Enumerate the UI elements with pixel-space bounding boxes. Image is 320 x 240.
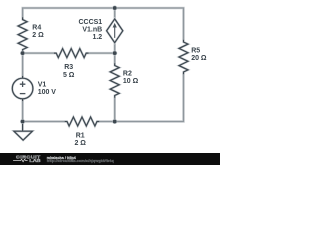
svg-text:R2: R2 — [123, 71, 132, 78]
svg-text:V1.nB: V1.nB — [82, 27, 102, 34]
ground — [14, 122, 33, 141]
wire V1 top stub — [21, 53, 24, 77]
wire R3 left stub — [23, 52, 55, 55]
label R2 value — [123, 71, 139, 86]
wire CCCS1 top stub — [113, 8, 116, 19]
svg-text:1.2: 1.2 — [92, 34, 102, 41]
wire R1 right stub — [97, 120, 115, 123]
svg-text:CCCS1: CCCS1 — [78, 19, 102, 26]
svg-text:http://circuitlab.com/c/hjqwgk: http://circuitlab.com/c/hjqwgkt/fb4q — [47, 159, 114, 163]
label CCCS1 value — [78, 19, 102, 41]
node junction: R4/V1/R3 — [20, 51, 25, 56]
wire CCCS1 bottom stub — [113, 43, 116, 54]
wire R2 top stub — [113, 53, 116, 64]
wire R3 right stub — [87, 52, 115, 55]
node junction: R3/CCCS1/R2 — [112, 51, 117, 56]
wire R2 bottom stub — [113, 97, 116, 122]
wire bottom-right segment — [115, 74, 184, 122]
svg-text:R4: R4 — [32, 25, 41, 32]
svg-text:2 Ω: 2 Ω — [74, 140, 86, 147]
wire top-right segment — [115, 8, 184, 41]
voltage source V1 — [12, 76, 33, 101]
resistor R2 — [110, 63, 119, 98]
svg-text:R1: R1 — [76, 133, 85, 140]
footer CircuitLab logo zigzag — [13, 159, 28, 161]
wire V1 bottom stub — [21, 100, 24, 122]
node junction: top wire/CCCS1 — [112, 6, 117, 11]
resistor R5 — [179, 40, 188, 75]
svg-text:V1: V1 — [38, 81, 47, 88]
svg-text:20 Ω: 20 Ω — [191, 55, 207, 62]
wire bottom-left segment — [23, 120, 66, 123]
wire top-left segment — [23, 8, 115, 20]
label R1 value — [74, 133, 86, 148]
node junction: R1/R2/bottom wire — [112, 119, 117, 124]
svg-text:10 Ω: 10 Ω — [123, 78, 139, 85]
footer bar — [0, 153, 220, 165]
resistor R1 — [65, 117, 100, 126]
svg-text:LAB: LAB — [29, 158, 40, 163]
label V1 value — [38, 81, 57, 96]
label R3 value — [63, 64, 75, 79]
current source CCCS1 — [107, 19, 123, 43]
label R5 value — [191, 47, 207, 62]
svg-text:2 Ω: 2 Ω — [32, 32, 44, 39]
svg-text:5 Ω: 5 Ω — [63, 72, 75, 79]
svg-text:R3: R3 — [64, 64, 73, 71]
CCCS1 arrow — [113, 23, 117, 38]
node junction: V1/ground/R1 — [20, 119, 25, 124]
V1 minus sign — [20, 93, 26, 95]
resistor R4 — [18, 17, 27, 52]
resistor R3 — [54, 49, 89, 58]
label R4 value — [32, 25, 44, 40]
V1 plus sign — [20, 81, 26, 87]
svg-text:R5: R5 — [191, 47, 200, 54]
svg-text:100 V: 100 V — [38, 89, 57, 96]
